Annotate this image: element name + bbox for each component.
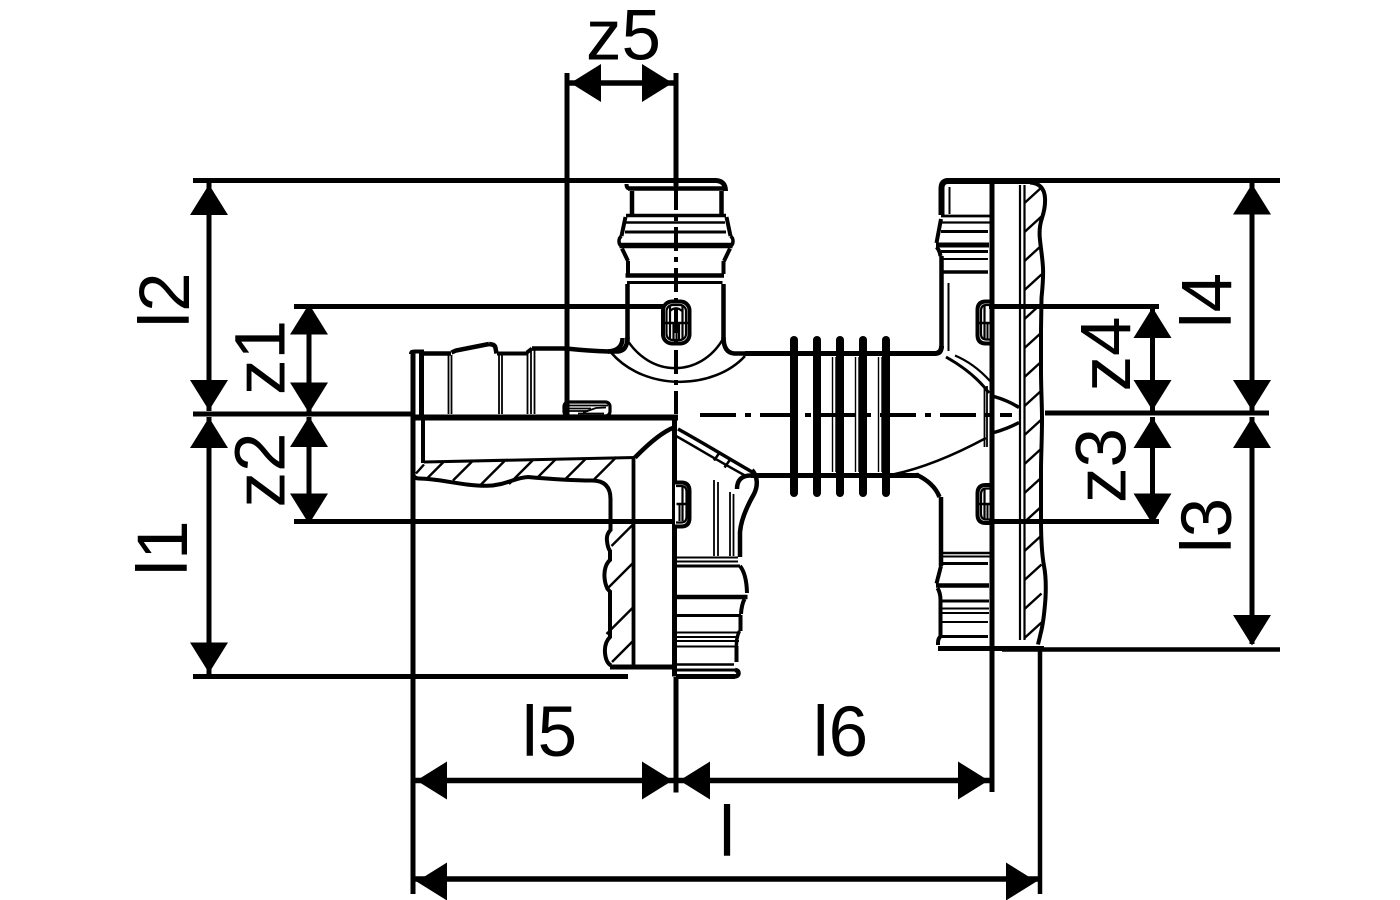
corrugated bridge tube bbox=[737, 346, 942, 489]
bottom port barb bbox=[676, 429, 757, 677]
dimension l3 bbox=[1233, 417, 1271, 646]
right port pipe end edge bbox=[985, 386, 988, 447]
bottom extension lines bbox=[413, 184, 1040, 894]
svg-text:z4: z4 bbox=[1067, 317, 1146, 392]
sleeve top line (main left horizontal) bbox=[193, 414, 678, 418]
dimension l bbox=[413, 863, 1042, 900]
dimension l5 bbox=[413, 762, 676, 800]
svg-text:z2: z2 bbox=[222, 433, 301, 508]
svg-text:l: l bbox=[719, 793, 735, 872]
dimension z3 bbox=[989, 417, 1172, 524]
right sleeve section hatched strip bbox=[1020, 183, 1046, 645]
main horizontal centerline bbox=[700, 413, 1012, 417]
saddle curves under top port bbox=[611, 338, 745, 382]
top port window bbox=[663, 302, 690, 344]
dimension l6 bbox=[676, 762, 992, 800]
left sleeve section hatched band bbox=[413, 419, 674, 499]
svg-text:z5: z5 bbox=[586, 0, 661, 76]
svg-text:l1: l1 bbox=[124, 520, 203, 575]
right port upper barb bbox=[936, 181, 1034, 393]
dimension z4 bbox=[989, 307, 1172, 412]
svg-text:l2: l2 bbox=[126, 272, 205, 327]
top/bottom port centerline bbox=[674, 73, 679, 414]
bottom port section face bbox=[672, 417, 677, 677]
bottom sleeve section hatched strip bbox=[604, 458, 674, 668]
right port lower window bbox=[978, 485, 992, 523]
svg-text:l5: l5 bbox=[522, 693, 577, 772]
dimension l1 bbox=[190, 417, 628, 677]
right port lower barb bbox=[893, 438, 1044, 649]
svg-text:l4: l4 bbox=[1168, 273, 1247, 328]
svg-text:l6: l6 bbox=[813, 693, 868, 772]
left port barb bbox=[411, 338, 623, 415]
svg-text:l3: l3 bbox=[1168, 498, 1247, 553]
dimension l2 bbox=[190, 181, 629, 412]
pipe stop detail on sleeve top bbox=[564, 402, 610, 416]
dimension z5 bbox=[567, 64, 676, 416]
dimension l4 bbox=[1233, 183, 1271, 411]
corrugation ribs bbox=[794, 340, 886, 493]
svg-text:z1: z1 bbox=[222, 320, 301, 395]
top port barb bbox=[608, 181, 745, 354]
svg-text:z3: z3 bbox=[1063, 428, 1142, 503]
right reference lines bbox=[1002, 181, 1280, 650]
right port mouth funnel curves bbox=[994, 397, 1019, 433]
dimension z1 bbox=[290, 304, 663, 413]
bottom port window bbox=[675, 483, 690, 527]
dimension z2 bbox=[290, 417, 672, 525]
right port upper window bbox=[978, 302, 992, 344]
